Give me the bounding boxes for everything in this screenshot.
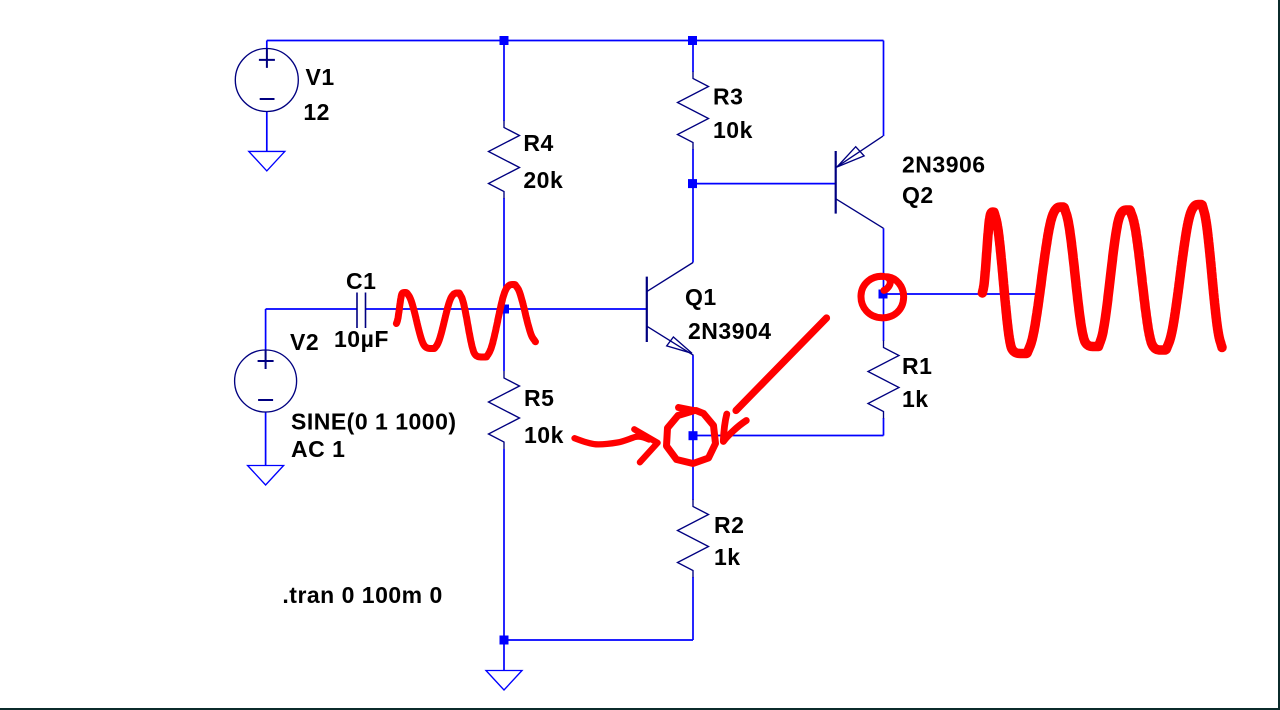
svg-text:R5: R5 xyxy=(524,385,554,411)
svg-text:R2: R2 xyxy=(714,512,744,538)
svg-text:V2: V2 xyxy=(290,329,319,355)
svg-text:R3: R3 xyxy=(713,84,743,110)
svg-text:AC 1: AC 1 xyxy=(291,436,345,462)
svg-text:.tran 0 100m 0: .tran 0 100m 0 xyxy=(282,582,442,608)
svg-text:1k: 1k xyxy=(902,386,929,412)
svg-text:12: 12 xyxy=(303,99,330,125)
svg-text:1k: 1k xyxy=(714,544,741,570)
svg-text:2N3904: 2N3904 xyxy=(688,318,772,344)
svg-text:V1: V1 xyxy=(306,64,335,90)
svg-text:R1: R1 xyxy=(902,353,932,379)
svg-text:SINE(0 1 1000): SINE(0 1 1000) xyxy=(291,409,457,435)
svg-text:10k: 10k xyxy=(524,422,564,448)
svg-text:10k: 10k xyxy=(713,117,753,143)
svg-text:C1: C1 xyxy=(346,268,376,294)
svg-text:Q2: Q2 xyxy=(902,182,934,208)
svg-text:R4: R4 xyxy=(523,130,553,156)
svg-text:10µF: 10µF xyxy=(334,326,389,352)
svg-text:20k: 20k xyxy=(523,167,563,193)
svg-text:2N3906: 2N3906 xyxy=(902,152,986,178)
svg-text:Q1: Q1 xyxy=(685,284,717,310)
